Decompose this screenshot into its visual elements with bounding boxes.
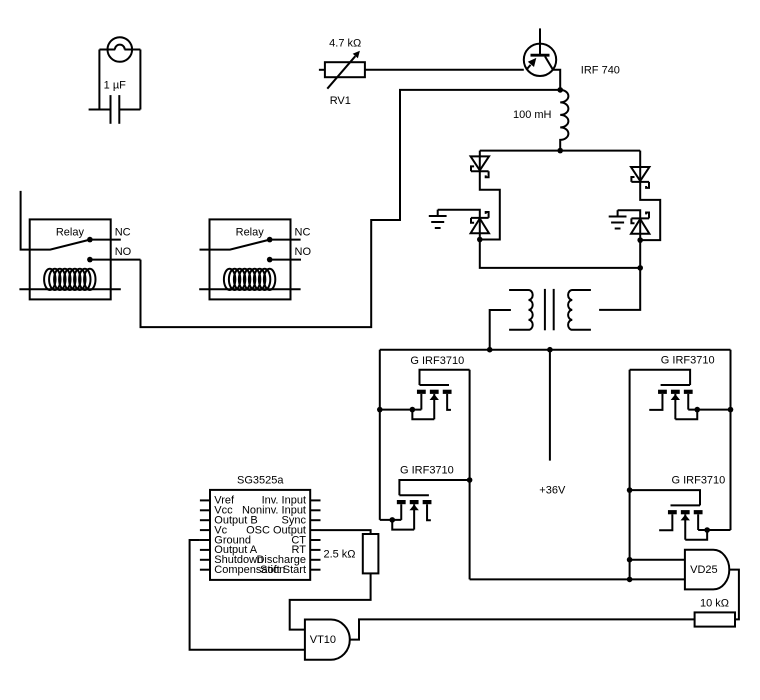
node E junction bbox=[487, 347, 493, 353]
wire VS1 cathode jog bbox=[480, 171, 500, 239]
wire VD25 output to R2 bbox=[729, 570, 739, 620]
U1 pin Ground bbox=[200, 534, 251, 546]
diode VS4 (cathode bar with hooks, pointing up) bbox=[631, 213, 649, 234]
wire R1 to VT10 input 1 bbox=[290, 573, 371, 629]
resistor RV1 4.7 kOhm (variable) bbox=[319, 51, 365, 89]
wire relay NO net to node A bbox=[141, 90, 561, 327]
diode VS3 (cathode bar with hooks, pointing down) bbox=[631, 167, 649, 188]
svg-text:10 kΩ: 10 kΩ bbox=[700, 598, 729, 610]
svg-text:NC: NC bbox=[295, 226, 311, 238]
wire left rail bbox=[379, 350, 381, 520]
and-gate VT10 bbox=[305, 620, 350, 660]
U1 pin Noninv. Input bbox=[242, 505, 321, 517]
diode VS1 (cathode bar with hooks, pointing down) bbox=[471, 156, 489, 177]
wire VS3 cathode jog bbox=[640, 182, 660, 240]
node J junction bbox=[627, 577, 633, 583]
ground GND1 bbox=[429, 210, 447, 228]
svg-text:SG3525a: SG3525a bbox=[237, 475, 284, 487]
diode VS2 (cathode bar with hooks, pointing up) bbox=[471, 212, 489, 233]
transformer T1 core bbox=[545, 289, 554, 330]
svg-text:VD25: VD25 bbox=[690, 564, 718, 576]
ground GND2 bbox=[609, 210, 627, 228]
transistor M4 (N-MOSFET) bbox=[630, 490, 731, 540]
wire right rail bbox=[730, 350, 732, 530]
wire OSC Output to R1 bbox=[321, 530, 371, 534]
svg-text:G IRF3710: G IRF3710 bbox=[400, 464, 454, 476]
wire VD25 input 2 bbox=[470, 578, 685, 580]
U1 pin Inv. Input bbox=[262, 495, 321, 507]
node C junction bbox=[637, 237, 643, 243]
transformer T1 primary bbox=[509, 290, 533, 330]
node L1 bottom junction bbox=[557, 148, 563, 154]
U1 pin Vref bbox=[200, 495, 235, 507]
wire VS2 anode to node B bbox=[479, 218, 481, 240]
relay K2 bbox=[199, 219, 311, 299]
U1 pin Sync bbox=[282, 515, 321, 527]
svg-text:4.7 kΩ: 4.7 kΩ bbox=[329, 37, 361, 49]
svg-text:1 µF: 1 µF bbox=[104, 80, 127, 92]
wire left gate line bbox=[469, 370, 471, 580]
wire VT10 output to R2 bbox=[350, 619, 695, 639]
wire capacitor right lead bbox=[119, 109, 140, 111]
wire right branch top bbox=[639, 151, 641, 182]
wire Q1 collector down bbox=[553, 70, 560, 90]
svg-text:Soft Start: Soft Start bbox=[260, 564, 306, 576]
svg-text:+36V: +36V bbox=[539, 485, 566, 497]
node B junction bbox=[477, 237, 483, 243]
wire GND1 to VS2 bbox=[438, 210, 480, 218]
U1 pin RT bbox=[292, 544, 321, 556]
wire capacitor left lead bbox=[89, 109, 111, 111]
capacitor C1 1 uF bbox=[111, 95, 120, 124]
wire right gate line bbox=[629, 370, 631, 580]
op-amp U1 SG3525a bbox=[210, 475, 310, 580]
node F junction bbox=[547, 347, 553, 353]
transistor Q1 IRF 740 bbox=[524, 28, 556, 76]
svg-text:G IRF3710: G IRF3710 bbox=[671, 475, 725, 487]
svg-text:NC: NC bbox=[115, 226, 131, 238]
wire bridge bottom rail bbox=[480, 240, 640, 268]
node I junction bbox=[627, 557, 633, 563]
U1 pin OSC Output bbox=[246, 524, 320, 536]
node H junction bbox=[627, 487, 633, 493]
wire RV1 to Q1 bbox=[365, 69, 524, 71]
wire GND2 to VS4 bbox=[618, 210, 641, 218]
U1 pin Output A bbox=[200, 544, 258, 556]
node G junction bbox=[467, 477, 473, 483]
svg-text:100 mH: 100 mH bbox=[513, 109, 552, 121]
svg-text:NO: NO bbox=[115, 246, 132, 258]
svg-text:G IRF3710: G IRF3710 bbox=[410, 355, 464, 367]
svg-text:RV1: RV1 bbox=[330, 95, 351, 107]
transistor M1 (N-MOSFET) bbox=[377, 370, 470, 420]
svg-text:NO: NO bbox=[295, 246, 312, 258]
wire bridge top rail bbox=[480, 150, 640, 152]
U1 pin Output B bbox=[200, 515, 258, 527]
U1 pin Soft Start bbox=[260, 564, 320, 576]
resistor R1 2.5 kOhm bbox=[363, 534, 379, 573]
svg-text:Relay: Relay bbox=[56, 226, 85, 238]
svg-text:IRF 740: IRF 740 bbox=[581, 65, 620, 77]
lamp EL1 bbox=[99, 37, 140, 62]
U1 pin Compensation bbox=[200, 564, 285, 576]
U1 pin Vc bbox=[200, 524, 228, 536]
node D junction bbox=[637, 265, 643, 271]
resistor R2 10 kOhm bbox=[695, 612, 735, 626]
svg-text:VT10: VT10 bbox=[310, 634, 336, 646]
transformer T1 secondary bbox=[568, 290, 591, 330]
U1 pin Discharge bbox=[256, 554, 320, 566]
wire lamp loop right bbox=[139, 50, 141, 110]
transistor M3 (N-MOSFET) bbox=[630, 370, 734, 420]
wire VS4 anode to node C bbox=[639, 218, 641, 240]
svg-text:Relay: Relay bbox=[236, 226, 265, 238]
wire node C to transformer tap bbox=[599, 240, 640, 310]
node A junction bbox=[557, 87, 563, 93]
inductor L1 100 mH bbox=[560, 90, 568, 151]
transistor M2 (N-MOSFET) bbox=[380, 480, 470, 530]
wire lamp loop left bbox=[98, 50, 100, 110]
U1 pin Shutdown bbox=[200, 554, 263, 566]
wire left branch top bbox=[479, 151, 481, 172]
U1 pin Vcc bbox=[200, 505, 233, 517]
relay K1 bbox=[19, 191, 140, 300]
and-gate VD25 bbox=[685, 550, 729, 590]
wire +36V stub bbox=[549, 350, 551, 461]
wire primary tap bbox=[490, 310, 511, 350]
wire main rail bbox=[380, 349, 731, 351]
wire Ground pin to VT10 input 2 bbox=[190, 540, 305, 650]
svg-text:G IRF3710: G IRF3710 bbox=[661, 355, 715, 367]
U1 pin CT bbox=[291, 534, 320, 546]
wire VD25 input 1 bbox=[630, 559, 685, 561]
svg-text:2.5 kΩ: 2.5 kΩ bbox=[323, 549, 355, 561]
